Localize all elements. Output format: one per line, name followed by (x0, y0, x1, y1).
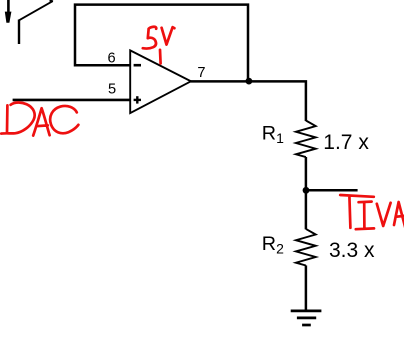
junction dot at output node (246, 78, 253, 85)
svg-text:7: 7 (197, 65, 205, 81)
svg-text:R1: R1 (262, 122, 284, 146)
junction dot at divider node (303, 187, 310, 194)
op-amp U1 (130, 50, 191, 113)
op-amp non-inverting input plus sign (134, 96, 141, 103)
wire (vertical below lever) (18, 20, 20, 45)
wire middle node down to R2 (305, 190, 308, 229)
handwritten annotation 5V (red) (143, 27, 175, 64)
wire R1 to middle node (305, 157, 308, 190)
handwritten annotation TIVA (red) (340, 195, 404, 229)
svg-text:3.3 x: 3.3 x (329, 239, 375, 262)
op-amp inverting input minus sign (134, 64, 141, 67)
svg-text:6: 6 (108, 51, 116, 67)
svg-text:5: 5 (108, 82, 116, 98)
wire op-amp output to R1 (right then down) (191, 81, 306, 121)
svg-text:1.7 x: 1.7 x (323, 131, 369, 154)
ground (291, 311, 322, 325)
wire R2 to ground (305, 265, 308, 310)
wire divider node to TIVA (306, 189, 358, 192)
switch lever (slanted wire, cropped at top) (19, 1, 53, 21)
resistor R1 (296, 121, 316, 158)
resistor R2 (296, 229, 316, 266)
arrow pointing down (top-left, cropped) (5, 0, 12, 23)
wire DAC input to pin 5 (13, 99, 131, 102)
svg-text:R2: R2 (262, 233, 284, 257)
wire (feedback loop from output to pin 6) (75, 5, 248, 81)
handwritten annotation DAC (red) (1, 102, 78, 135)
